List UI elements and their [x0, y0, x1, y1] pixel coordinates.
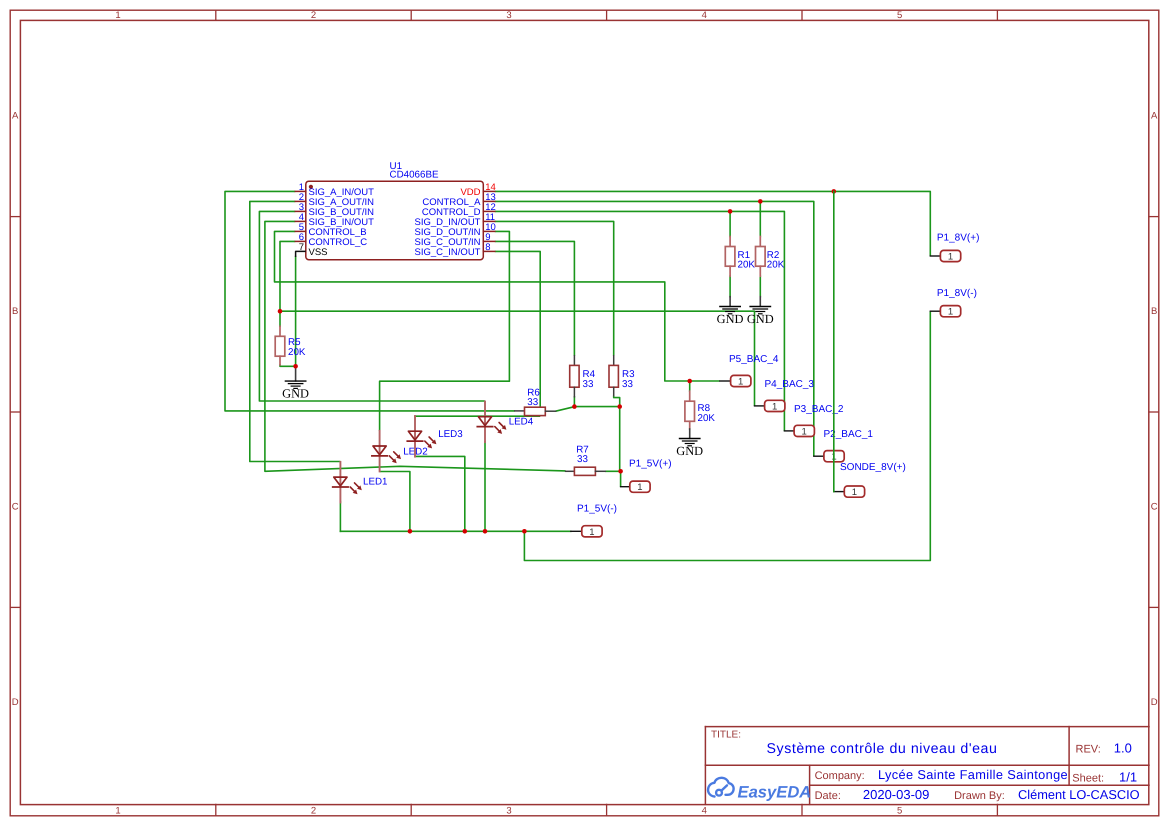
junction dots — [278, 189, 836, 534]
svg-text:LED1: LED1 — [363, 477, 388, 488]
svg-text:5: 5 — [897, 806, 902, 817]
svg-text:D: D — [1151, 697, 1158, 708]
resistor R3 33 — [609, 356, 635, 396]
connector P1_5V(-) — [582, 526, 602, 537]
connector P5_BAC_4 pin stub — [720, 380, 731, 382]
U1 pin 14 VDD — [460, 182, 495, 198]
svg-text:LED3: LED3 — [438, 429, 463, 440]
svg-text:SONDE_8V(+): SONDE_8V(+) — [840, 462, 906, 473]
wire R5 top lead — [279, 311, 281, 326]
svg-text:P1_8V(+): P1_8V(+) — [937, 232, 980, 243]
svg-text:1: 1 — [637, 482, 642, 493]
connector SONDE_8V(+) pin stub — [834, 491, 845, 493]
svg-text:LED4: LED4 — [509, 417, 534, 428]
LED LED4 — [477, 402, 506, 443]
connector P1_5V(+) — [630, 481, 650, 492]
connector P3_BAC_2 — [794, 425, 814, 436]
svg-text:20K: 20K — [288, 347, 306, 358]
title block border lines — [705, 727, 1149, 805]
svg-text:1: 1 — [772, 401, 777, 412]
wire pin2 to LED1 anode — [250, 201, 341, 461]
wire R8 top lead — [689, 381, 691, 391]
svg-text:5: 5 — [897, 10, 902, 21]
svg-text:4: 4 — [702, 806, 707, 817]
wire pin13 to P2_BAC_1 — [495, 201, 814, 456]
wire R7 right to P1_5V(+) node — [605, 471, 620, 486]
svg-text:A: A — [12, 110, 19, 121]
U1 pin 6 CONTROL_C — [295, 232, 367, 248]
svg-text:1: 1 — [115, 806, 120, 817]
U1 pin 5 CONTROL_B — [295, 222, 366, 238]
svg-text:REV:: REV: — [1076, 744, 1101, 756]
connector P3_BAC_2 pin stub — [784, 430, 794, 432]
resistor R6 33 horizontal — [515, 388, 556, 416]
svg-text:P5_BAC_4: P5_BAC_4 — [729, 354, 779, 365]
ground GND under R5 — [282, 381, 309, 400]
U1 pin 12 CONTROL_D — [422, 202, 496, 218]
U1 pin 10 SIG_D_OUT/IN — [415, 222, 496, 238]
svg-text:33: 33 — [577, 454, 588, 465]
wire pin12 to P3_BAC_2 — [495, 211, 785, 431]
svg-text:P3_BAC_2: P3_BAC_2 — [794, 404, 844, 415]
wire LED3 anode horizontal — [415, 416, 540, 417]
svg-text:Date:: Date: — [815, 790, 841, 802]
svg-text:Company:: Company: — [815, 770, 865, 782]
U1 pin 11 SIG_D_IN/OUT — [415, 212, 496, 228]
frame row labels — [12, 110, 1158, 708]
connector P4_BAC_3 — [765, 400, 785, 411]
svg-text:GND: GND — [282, 386, 309, 400]
wire node down to R7 right — [619, 407, 621, 472]
svg-text:1: 1 — [948, 252, 953, 263]
svg-text:1.0: 1.0 — [1114, 741, 1132, 756]
connector P1_5V(+) pin stub — [621, 486, 630, 488]
wire pin3 to LED4 anode — [259, 211, 485, 401]
svg-text:3: 3 — [506, 10, 511, 21]
connector P1_5V(-) pin stub — [571, 530, 582, 532]
connector P1_8V(-) — [940, 306, 960, 317]
svg-text:VSS: VSS — [309, 247, 328, 258]
U1 pin1 orientation dot — [309, 185, 313, 189]
svg-text:B: B — [1151, 306, 1157, 317]
svg-text:4: 4 — [702, 10, 707, 21]
connector SONDE_8V(+) — [844, 486, 864, 497]
svg-text:C: C — [1151, 501, 1158, 512]
svg-text:P1_8V(-): P1_8V(-) — [937, 288, 977, 299]
LED LED1 — [333, 462, 362, 503]
resistor R8 20K — [685, 391, 715, 429]
wire R5 bottom to ground node — [280, 364, 296, 366]
wire R2 gnd stem — [759, 297, 761, 307]
frame row ticks — [10, 217, 1159, 608]
svg-text:1: 1 — [852, 487, 857, 498]
ground GND under R8 — [676, 439, 703, 458]
connector P2_BAC_1 — [824, 451, 844, 462]
U1 pin 1 SIG_A_IN/OUT — [295, 182, 374, 198]
op-amp U1 CD4066BE body — [306, 181, 484, 260]
svg-text:P4_BAC_3: P4_BAC_3 — [765, 379, 815, 390]
EasyEDA logo cloud — [708, 778, 734, 797]
wire node R4/R3 bottoms — [574, 406, 619, 408]
svg-text:20K: 20K — [767, 260, 785, 271]
resistor R1 20K — [725, 237, 755, 277]
svg-text:20K: 20K — [698, 413, 716, 424]
svg-text:EasyEDA: EasyEDA — [738, 783, 812, 802]
wire R6 right to node — [556, 407, 575, 412]
svg-text:Drawn By:: Drawn By: — [954, 790, 1005, 802]
svg-text:B: B — [12, 306, 18, 317]
svg-text:D: D — [12, 697, 19, 708]
wire pin8 to LED3 anode — [495, 251, 540, 416]
svg-text:TITLE:: TITLE: — [711, 730, 741, 741]
svg-text:GND: GND — [717, 312, 744, 326]
wire pin14 VDD to P1_8V(+) — [495, 191, 931, 256]
resistor R2 20K — [756, 237, 785, 277]
svg-text:7: 7 — [299, 242, 304, 253]
U1 pin 4 SIG_B_IN/OUT — [295, 212, 374, 228]
svg-text:2020-03-09: 2020-03-09 — [863, 787, 930, 802]
connector P4_BAC_3 pin stub — [755, 405, 765, 407]
svg-text:P2_BAC_1: P2_BAC_1 — [824, 429, 874, 440]
svg-text:1: 1 — [589, 527, 594, 538]
connector P5_BAC_4 — [731, 375, 751, 386]
wire pin4 slanted to R7 left — [265, 221, 566, 471]
resistor R7 33 horizontal — [566, 444, 606, 475]
connector P2_BAC_1 pin stub — [814, 455, 824, 457]
svg-text:GND: GND — [747, 312, 774, 326]
connector P1_8V(+) pin stub — [930, 255, 940, 257]
LED LED3 — [407, 416, 436, 457]
svg-text:GND: GND — [676, 444, 703, 458]
wire pin1 to R6 left — [225, 191, 515, 411]
wire minus bus to P1_8V(-) — [524, 311, 930, 560]
svg-text:3: 3 — [506, 806, 511, 817]
wire R3 bottom elbow — [614, 396, 620, 407]
svg-text:Lycée Sainte Famille Saintonge: Lycée Sainte Famille Saintonge — [878, 767, 1068, 782]
svg-text:Sheet:: Sheet: — [1072, 772, 1104, 784]
U1 pin 3 SIG_B_OUT/IN — [295, 202, 374, 218]
U1 pin 13 CONTROL_A — [422, 192, 495, 208]
svg-text:20K: 20K — [738, 260, 756, 271]
wire R1 bottom to ground — [729, 276, 731, 297]
svg-text:1: 1 — [115, 10, 120, 21]
U1 pin 9 SIG_C_OUT/IN — [415, 232, 495, 248]
frame column ticks — [216, 10, 998, 816]
U1 pin 2 SIG_A_OUT/IN — [295, 192, 374, 208]
resistor R5 20K — [275, 326, 306, 365]
wire R2 bottom to ground — [759, 276, 761, 297]
svg-text:C: C — [12, 501, 19, 512]
svg-text:1: 1 — [802, 426, 807, 437]
LED LED2 — [372, 431, 401, 472]
svg-text:33: 33 — [622, 379, 633, 390]
wire R1 gnd stem — [729, 297, 731, 307]
wire R5 gnd stem — [295, 366, 297, 381]
wire LED2 cathode to minus bus — [380, 472, 410, 532]
resistor R4 33 — [570, 356, 596, 397]
svg-text:33: 33 — [527, 397, 538, 408]
svg-text:1: 1 — [738, 377, 743, 388]
wire R2 top lead — [759, 201, 761, 236]
svg-text:P1_5V(-): P1_5V(-) — [577, 504, 617, 515]
wire pin5 to node P5_BAC_4 / R8 — [275, 231, 720, 381]
wire pin10 to LED2 anode — [380, 231, 510, 431]
svg-text:A: A — [1151, 110, 1158, 121]
svg-text:SIG_C_IN/OUT: SIG_C_IN/OUT — [415, 247, 481, 258]
svg-text:33: 33 — [583, 379, 594, 390]
wire pin9 to R4 top — [495, 241, 575, 355]
svg-text:1: 1 — [948, 307, 953, 318]
connector P1_8V(-) pin stub — [930, 310, 940, 312]
svg-text:CD4066BE: CD4066BE — [390, 170, 439, 181]
frame column labels — [115, 10, 902, 817]
ground GND under R2 — [747, 307, 774, 326]
U1 pin 8 SIG_C_IN/OUT — [415, 242, 495, 258]
svg-text:8: 8 — [485, 242, 490, 253]
ground GND under R1 — [717, 307, 744, 326]
wire VDD down to SONDE_8V(+) — [833, 191, 835, 491]
svg-text:Système contrôle du niveau d'e: Système contrôle du niveau d'eau — [767, 741, 998, 757]
U1 pin 7 VSS — [296, 242, 328, 258]
wire R4 bottom lead — [573, 397, 575, 407]
wire pin6 to R5 and P4_BAC_3 — [280, 241, 755, 406]
wire minus bus to P1_5V(-) — [340, 530, 570, 532]
connector P1_8V(+) — [940, 250, 960, 261]
svg-text:2: 2 — [311, 806, 316, 817]
wire LED3 cathode to minus bus — [415, 456, 465, 531]
wire pin11 to R3 top — [495, 221, 614, 355]
svg-text:2: 2 — [311, 10, 316, 21]
svg-text:Clément LO-CASCIO: Clément LO-CASCIO — [1018, 787, 1140, 802]
wire LED1 cathode down to minus bus — [339, 502, 341, 532]
wire R8 gnd stem — [689, 429, 691, 438]
wire pin7 VSS to ground node — [295, 257, 297, 367]
wire LED4 cathode to minus bus — [484, 442, 486, 531]
wire R1 top lead — [729, 211, 731, 236]
svg-text:1/1: 1/1 — [1119, 769, 1137, 784]
svg-text:P1_5V(+): P1_5V(+) — [629, 459, 672, 470]
